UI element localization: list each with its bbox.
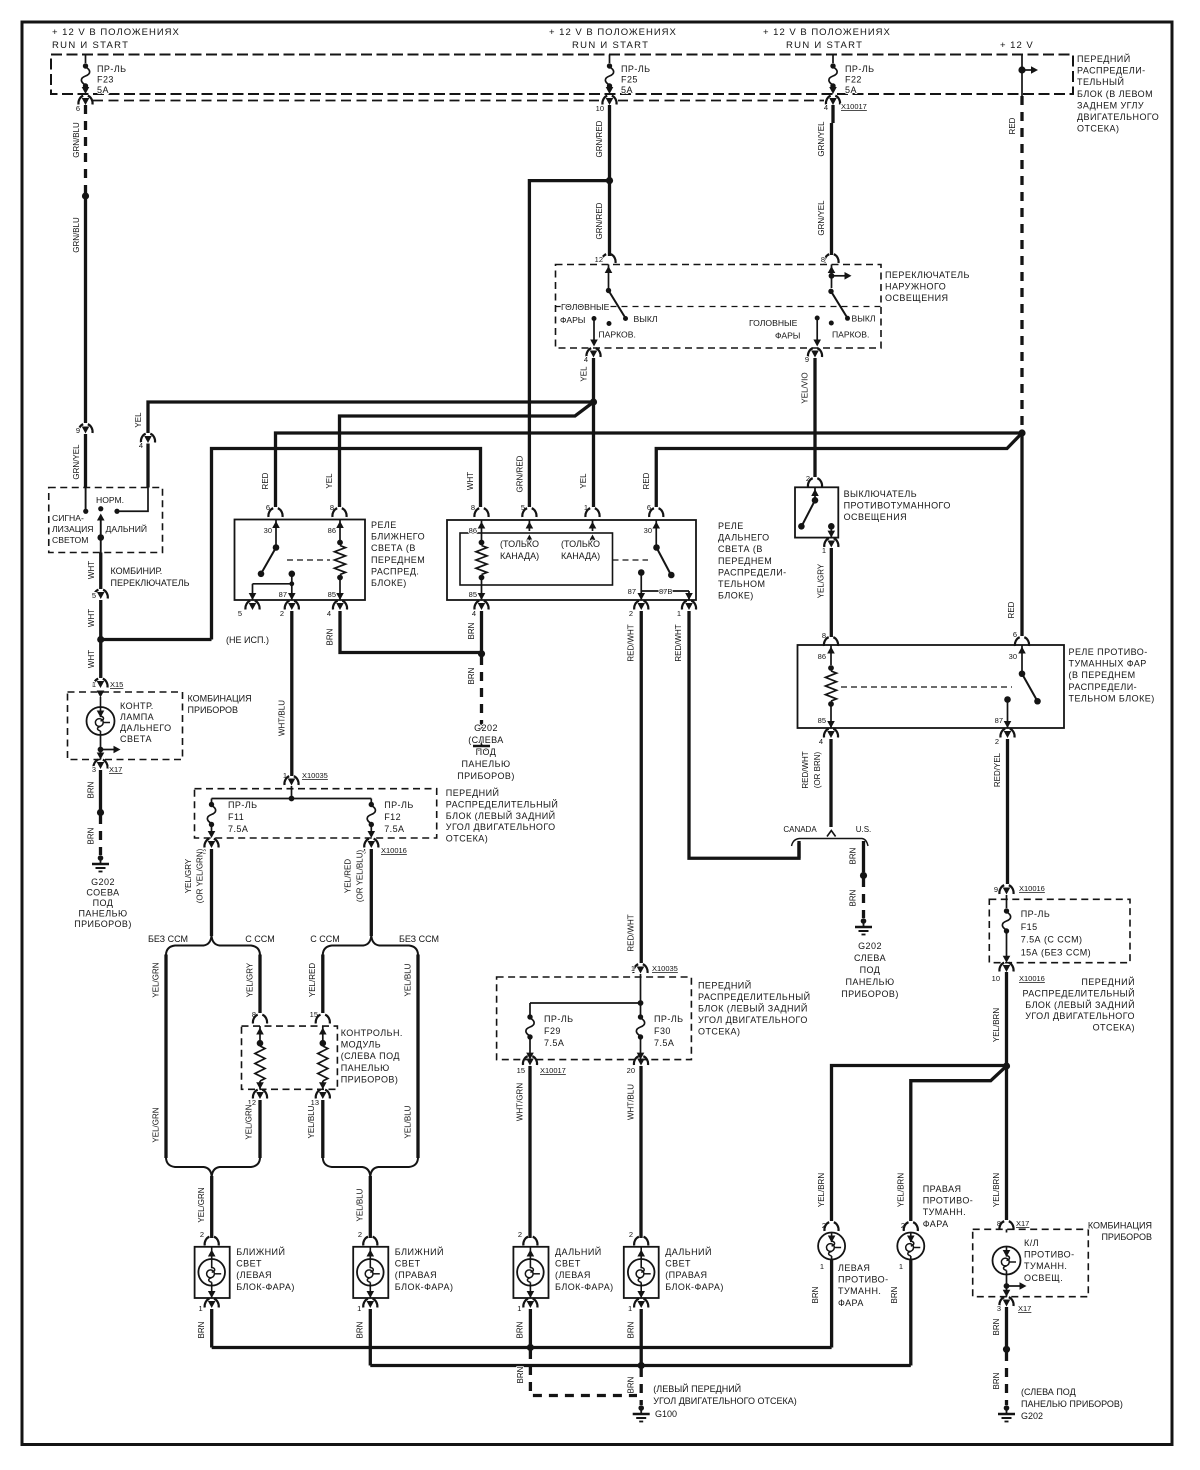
svg-text:ДВИГАТЕЛЬНОГО: ДВИГАТЕЛЬНОГО [1077,112,1159,122]
svg-text:4: 4 [472,609,476,618]
svg-text:15А (БЕЗ ССМ): 15А (БЕЗ ССМ) [1021,947,1091,957]
svg-text:ДАЛЬНИЙ: ДАЛЬНИЙ [106,523,148,534]
svg-text:ПРИБОРОВ): ПРИБОРОВ) [341,1074,399,1084]
svg-text:F15: F15 [1021,922,1038,932]
svg-text:BRN: BRN [890,1286,899,1303]
fuse F30 7.5A [640,1003,642,1015]
svg-text:BRN: BRN [516,1321,525,1338]
svg-text:МОДУЛЬ: МОДУЛЬ [341,1040,381,1050]
svg-text:WHT/BLU: WHT/BLU [278,700,287,736]
svg-text:U.S.: U.S. [856,825,872,834]
fuse box F15 (dashed) [989,899,1130,962]
svg-text:30: 30 [264,526,272,535]
svg-text:BRN: BRN [197,1321,206,1338]
connector switch pin 8 [824,254,838,263]
svg-text:ПР-ЛЬ: ПР-ЛЬ [228,800,258,810]
svg-text:2: 2 [995,737,999,746]
svg-text:WHT: WHT [87,609,96,627]
svg-text:ОТСЕКА): ОТСЕКА) [1093,1023,1135,1033]
connector high-beam relay pin 5 [522,508,536,517]
svg-text:5: 5 [92,591,96,600]
svg-text:ПАНЕЛЬЮ: ПАНЕЛЬЮ [78,909,127,919]
svg-text:ПАНЕЛЬЮ: ПАНЕЛЬЮ [845,977,894,987]
svg-text:RED/YEL: RED/YEL [993,752,1002,787]
svg-text:ОСВЕЩЕНИЯ: ОСВЕЩЕНИЯ [885,293,948,303]
svg-text:WHT/GRN: WHT/GRN [516,1083,525,1121]
wire BRN left low-beam [210,1309,213,1348]
connector fog relay pin 86 connector [824,637,838,646]
svg-text:F23: F23 [97,75,114,85]
svg-text:ПАНЕЛЬЮ: ПАНЕЛЬЮ [341,1063,390,1073]
svg-text:ПОД: ПОД [476,747,497,757]
relay coil [828,665,834,671]
svg-text:YEL/VIO: YEL/VIO [801,372,810,403]
wire YEL/GRY (OR YEL/GRN) [210,849,213,936]
lamp right fog lamp [897,1233,924,1260]
svg-text:86: 86 [818,652,826,661]
svg-text:(СЛЕВА ПОД: (СЛЕВА ПОД [341,1051,400,1061]
svg-text:ВЫКЛЮЧАТЕЛЬ: ВЫКЛЮЧАТЕЛЬ [844,489,917,499]
svg-text:(OR BRN): (OR BRN) [813,751,822,788]
svg-text:7.5А: 7.5А [654,1038,674,1048]
svg-text:BRN: BRN [356,1321,365,1338]
lamp left fog lamp [818,1233,845,1260]
svg-text:ПЕРЕДНИЙ: ПЕРЕДНИЙ [1081,976,1135,987]
wire YEL/GRY (with CCM) [258,955,261,1014]
svg-text:ЛЕВАЯ: ЛЕВАЯ [838,1263,870,1273]
connector X10017 pin 20 [634,1056,648,1065]
svg-text:2: 2 [280,609,284,618]
svg-text:РАСПРЕДЕЛИТЕЛЬНЫЙ: РАСПРЕДЕЛИТЕЛЬНЫЙ [446,798,559,809]
connector low-beam relay pin 5 [245,601,259,610]
svg-text:ТЕЛЬНЫЙ: ТЕЛЬНЫЙ [1077,76,1124,87]
svg-text:1: 1 [631,964,635,973]
wire YEL to low-beam relay pin 86 [340,402,594,507]
svg-text:+ 12 V В ПОЛОЖЕНИЯХ: + 12 V В ПОЛОЖЕНИЯХ [763,27,891,38]
svg-text:ПРОТИВО-: ПРОТИВО- [838,1275,889,1285]
wire BRN left high-beam [529,1309,532,1348]
svg-text:87: 87 [995,716,1003,725]
svg-text:1: 1 [199,1304,203,1313]
wire YEL from switch pin 4 [592,358,595,400]
svg-text:(ТОЛЬКО: (ТОЛЬКО [561,539,600,549]
svg-text:85: 85 [469,590,477,599]
svg-text:87В: 87В [659,587,672,596]
wire RED (dashed) [1020,96,1023,430]
svg-text:ФАРЫ: ФАРЫ [775,331,800,341]
wire YEL/RED (with CCM) [321,955,324,1014]
svg-text:1: 1 [628,1304,632,1313]
connector fog relay pin 4 [824,729,838,738]
svg-text:BRN: BRN [811,1286,820,1303]
svg-text:30: 30 [1009,652,1017,661]
svg-text:F30: F30 [654,1026,671,1036]
svg-text:РЕЛЕ: РЕЛЕ [371,520,397,530]
svg-text:RED/WHT: RED/WHT [801,751,810,788]
svg-text:1: 1 [899,1262,903,1271]
svg-text:G202: G202 [858,941,882,951]
svg-text:СВЕТ: СВЕТ [236,1259,262,1269]
svg-text:ЗАДНЕМ УГЛУ: ЗАДНЕМ УГЛУ [1077,100,1144,110]
svg-text:РАСПРЕДЕЛИ-: РАСПРЕДЕЛИ- [718,567,787,577]
connector row X10017 (dashed line) [93,100,601,102]
wire BRN to G202 [99,770,102,810]
svg-text:GRN/RED: GRN/RED [595,120,604,157]
svg-text:РЕЛЕ: РЕЛЕ [718,521,744,531]
svg-text:1: 1 [677,609,681,618]
svg-text:RED/WHT: RED/WHT [674,624,683,661]
lamp high-beam indicator [100,692,102,695]
svg-text:ТУМАНН.: ТУМАНН. [1024,1261,1067,1271]
ground G202 right [861,918,867,924]
connector fog switch pin 1 [824,538,838,547]
canada submodule box [460,533,613,585]
svg-text:6: 6 [76,104,80,113]
svg-text:ГОЛОВНЫЕ: ГОЛОВНЫЕ [561,302,610,312]
svg-text:YEL/BLU: YEL/BLU [356,1188,365,1221]
svg-text:ПЕРЕДНИЙ: ПЕРЕДНИЙ [1077,53,1131,64]
svg-text:2: 2 [200,1230,204,1239]
svg-text:10: 10 [596,104,604,113]
connector high-beam relay pin 1 [682,601,696,610]
connector X10035 pin 1 left [284,776,298,785]
svg-text:РАСПРЕДЕЛИТЕЛЬНЫЙ: РАСПРЕДЕЛИТЕЛЬНЫЙ [698,991,811,1002]
svg-text:ПРОТИВО-: ПРОТИВО- [923,1196,974,1206]
connector low-beam relay pin 30 connector [268,508,282,517]
svg-text:ВЫКЛ: ВЫКЛ [852,314,876,324]
svg-text:86: 86 [469,526,477,535]
wire YEL/BRN to right fog lamp [911,1066,1007,1221]
wire RED from high-beam relay pin 30 to +12V [656,433,1022,507]
svg-text:BRN: BRN [992,1372,1001,1389]
svg-text:YEL/RED: YEL/RED [308,963,317,997]
svg-text:86: 86 [328,526,336,535]
svg-text:БЛОК (ЛЕВЫЙ ЗАДНИЙ: БЛОК (ЛЕВЫЙ ЗАДНИЙ [1025,999,1135,1010]
svg-text:X10035: X10035 [302,771,328,780]
wire YEL/GRN [258,1100,261,1158]
svg-text:F29: F29 [544,1026,561,1036]
wire GRN/RED [608,105,611,256]
svg-text:ФАРА: ФАРА [923,1219,949,1229]
ground G100 [638,1405,644,1411]
wire canada branch [797,841,800,858]
svg-text:RED: RED [261,472,270,489]
svg-text:GRN/RED: GRN/RED [516,455,525,492]
svg-text:YEL/BRN: YEL/BRN [992,1173,1001,1207]
svg-text:RED: RED [642,472,651,489]
svg-text:ПЕРЕДНИЙ: ПЕРЕДНИЙ [698,980,752,991]
svg-text:5А: 5А [97,85,109,95]
svg-text:ПЕРЕДНЕМ: ПЕРЕДНЕМ [371,555,425,565]
ground G202 [479,737,485,743]
svg-text:6: 6 [1013,630,1017,639]
svg-text:С ССМ: С ССМ [245,934,274,944]
svg-text:8: 8 [821,255,825,264]
svg-text:ПЕРЕДНЕМ: ПЕРЕДНЕМ [718,556,772,566]
svg-text:ЛИЗАЦИЯ: ЛИЗАЦИЯ [52,524,93,534]
wire BRN ground bus A [212,1346,832,1349]
connector CCM pin 8 [253,1015,267,1024]
svg-text:X10016: X10016 [1019,974,1045,983]
wire BRN right fog lamp [909,1260,912,1366]
svg-text:БЛИЖНИЙ: БЛИЖНИЙ [395,1246,444,1257]
svg-text:12: 12 [595,255,603,264]
svg-text:ОСВЕЩ.: ОСВЕЩ. [1024,1273,1063,1283]
svg-text:YEL: YEL [134,412,143,428]
svg-text:УГОЛ ДВИГАТЕЛЬНОГО: УГОЛ ДВИГАТЕЛЬНОГО [1025,1011,1135,1021]
svg-text:(ТОЛЬКО: (ТОЛЬКО [500,539,539,549]
svg-text:YEL/RED: YEL/RED [344,859,353,893]
connector low-beam relay pin 4 [333,601,347,610]
relay coil [479,540,485,546]
svg-text:ДАЛЬНИЙ: ДАЛЬНИЙ [555,1246,602,1257]
connector switch pin 9 [808,348,822,357]
relay low-beam (РЕЛЕ БЛИЖНЕГО СВЕТА) [235,520,366,601]
svg-text:YEL/BLU: YEL/BLU [404,1105,413,1138]
svg-text:ПАРКОВ.: ПАРКОВ. [832,330,869,340]
wire YEL to high-beam relay pin 1 [592,402,595,507]
svg-text:(ПРАВАЯ: (ПРАВАЯ [665,1270,707,1280]
connector switch pin 4 [586,348,600,357]
svg-text:7.5А: 7.5А [544,1038,564,1048]
svg-text:RED/WHT: RED/WHT [627,624,636,661]
connector X10016 pin 10 [999,963,1013,972]
svg-text:РАСПРЕДЕЛИ-: РАСПРЕДЕЛИ- [1069,682,1138,692]
wire GRN/BLU (dashed) [84,105,87,193]
wire BRN left fog lamp [830,1260,833,1348]
svg-text:НОРМ.: НОРМ. [96,495,124,505]
connector inline pin 9 [78,424,92,433]
svg-text:СИГНА-: СИГНА- [52,513,84,523]
svg-text:КОМБИНИР.: КОМБИНИР. [111,566,163,576]
svg-text:КОНТРОЛЬН.: КОНТРОЛЬН. [341,1028,403,1038]
svg-text:ПЕРЕКЛЮЧАТЕЛЬ: ПЕРЕКЛЮЧАТЕЛЬ [111,578,190,588]
connector CCM pin 12 [253,1090,267,1099]
svg-text:8: 8 [471,503,475,512]
svg-text:RUN И START: RUN И START [572,40,649,51]
fuse F25 5A [609,55,611,64]
svg-text:1: 1 [92,680,96,689]
wire YEL/GRN (without CCM) [164,955,167,1159]
svg-text:X15: X15 [110,680,123,689]
svg-text:X17: X17 [109,765,122,774]
switch left half (low beams feed) [608,265,610,289]
svg-text:YEL/BRN: YEL/BRN [896,1173,905,1207]
node junction YEL [590,398,597,405]
svg-text:1: 1 [822,546,826,555]
svg-text:СЛЕВА: СЛЕВА [854,953,886,963]
svg-text:15: 15 [517,1066,525,1075]
svg-text:БЛОК-ФАРА): БЛОК-ФАРА) [665,1282,724,1292]
connector X10017 pin 6 [78,96,92,105]
wire BRN right low-beam [369,1309,372,1366]
svg-text:BRN: BRN [849,889,858,906]
connector low-beam relay pin 2 [285,601,299,610]
svg-text:ГОЛОВНЫЕ: ГОЛОВНЫЕ [749,318,798,328]
connector X10016 pin 4 [364,839,378,848]
connector CCM pin 13 [316,1090,330,1099]
svg-text:5А: 5А [621,85,633,95]
wire WHT from dimmer switch [100,538,102,553]
svg-text:YEL/GRY: YEL/GRY [246,962,255,997]
svg-text:3: 3 [92,765,96,774]
svg-text:2: 2 [518,1230,522,1239]
fuse F15 [1004,908,1009,913]
check control module box (dashed) [242,1026,338,1089]
svg-text:ТЕЛЬНОМ БЛОКЕ): ТЕЛЬНОМ БЛОКЕ) [1069,693,1155,703]
svg-text:КОМБИНАЦИЯ: КОМБИНАЦИЯ [1088,1221,1152,1231]
wire BRN [1005,1307,1008,1346]
svg-text:YEL/GRN: YEL/GRN [152,962,161,997]
svg-text:(ЛЕВАЯ: (ЛЕВАЯ [236,1270,272,1280]
wire BRN US branch [862,841,865,872]
svg-text:ПР-ЛЬ: ПР-ЛЬ [97,64,127,74]
svg-text:БЛОКЕ): БЛОКЕ) [371,578,407,588]
fuse F11 7.5A [211,799,213,803]
svg-text:УГОЛ ДВИГАТЕЛЬНОГО: УГОЛ ДВИГАТЕЛЬНОГО [698,1015,808,1025]
svg-text:10: 10 [992,974,1000,983]
node junction GRN/RED tap [606,177,613,184]
svg-text:ДАЛЬНЕГО: ДАЛЬНЕГО [718,533,770,543]
wire RED bus to fog relay [276,433,1023,507]
svg-text:БЛИЖНИЙ: БЛИЖНИЙ [236,1246,285,1257]
svg-text:RED/WHT: RED/WHT [627,914,636,951]
svg-text:X10017: X10017 [540,1066,566,1075]
wire GRN/YEL [84,434,87,488]
svg-text:ПРОТИВОТУМАННОГО: ПРОТИВОТУМАННОГО [844,501,951,511]
svg-text:1: 1 [357,1304,361,1313]
connector high-beam relay pin 4 [474,601,488,610]
wire WHT to high-beam relay net [101,638,212,641]
wire +12V feed with arrow tap [1021,55,1023,97]
svg-text:YEL/GRN: YEL/GRN [152,1107,161,1142]
lamp left high-beam [513,1247,548,1298]
svg-text:9: 9 [805,355,809,364]
resistor CCM left [259,1026,261,1041]
connector X10016 pin 9 [999,885,1013,894]
connector right low-beam pin 2 [363,1237,377,1246]
svg-text:GRN/YEL: GRN/YEL [817,200,826,236]
wire YEL/RED (OR YEL/BLU) [370,849,373,936]
svg-text:7.5А: 7.5А [228,824,248,834]
svg-text:ПРАВАЯ: ПРАВАЯ [923,1184,962,1194]
svg-text:ОТСЕКА): ОТСЕКА) [1077,124,1119,134]
wire YEL/BLU (without CCM) [416,955,419,1159]
wire BRN ground bus B [370,1364,911,1367]
svg-text:87: 87 [279,590,287,599]
svg-text:(ЛЕВЫЙ ПЕРЕДНИЙ: (ЛЕВЫЙ ПЕРЕДНИЙ [653,1383,741,1394]
connector left low-beam pin 2 [205,1237,219,1246]
svg-text:20: 20 [627,1066,635,1075]
svg-text:СВЕТ: СВЕТ [395,1259,421,1269]
svg-text:ЛАМПА: ЛАМПА [120,712,154,722]
wire BRN right high-beam [640,1309,643,1366]
svg-text:БЕЗ ССМ: БЕЗ ССМ [148,934,188,944]
switch contacts [85,488,87,511]
svg-text:ПР-ЛЬ: ПР-ЛЬ [654,1014,684,1024]
svg-text:YEL/BLU: YEL/BLU [307,1105,316,1138]
svg-text:2: 2 [358,1230,362,1239]
svg-text:1: 1 [517,1304,521,1313]
svg-text:ОСВЕЩЕНИЯ: ОСВЕЩЕНИЯ [844,512,907,522]
svg-text:БЕЗ ССМ: БЕЗ ССМ [399,934,439,944]
wire RED/WHT pin 87B canada loop [689,611,799,858]
svg-text:ПРОТИВО-: ПРОТИВО- [1024,1250,1075,1260]
svg-text:ПРИБОРОВ): ПРИБОРОВ) [841,989,899,999]
svg-text:(В ПЕРЕДНЕМ: (В ПЕРЕДНЕМ [1069,670,1136,680]
svg-text:РАСПРЕД.: РАСПРЕД. [371,566,419,576]
svg-text:ТУМАННЫХ ФАР: ТУМАННЫХ ФАР [1069,659,1147,669]
svg-text:7.5А (С ССМ): 7.5А (С ССМ) [1021,935,1083,945]
lamp right high-beam [624,1247,659,1298]
svg-text:ПАНЕЛЬЮ ПРИБОРОВ): ПАНЕЛЬЮ ПРИБОРОВ) [1021,1399,1123,1409]
svg-text:ФАРЫ: ФАРЫ [560,315,585,325]
svg-text:ПЕРЕКЛЮЧАТЕЛЬ: ПЕРЕКЛЮЧАТЕЛЬ [885,270,970,280]
svg-text:ТУМАНН.: ТУМАНН. [838,1286,881,1296]
svg-text:(OR YEL/BLU): (OR YEL/BLU) [356,850,365,903]
svg-text:GRN/RED: GRN/RED [595,202,604,239]
svg-text:КАНАДА): КАНАДА) [561,551,600,561]
svg-text:87: 87 [628,587,636,596]
connector inline pin 4 [141,434,155,443]
wire BRN (dashed) [1005,1352,1008,1405]
connector X10017 pin 10 [602,96,616,105]
node junction bus A [527,1344,534,1351]
svg-text:БЛОКЕ): БЛОКЕ) [718,591,754,601]
svg-text:BRN: BRN [326,628,335,645]
svg-text:F11: F11 [228,812,244,822]
connector X17 pin 8 [999,1221,1013,1230]
node option merge left [166,1158,260,1177]
switch blade [100,516,102,538]
svg-text:ВЫКЛ: ВЫКЛ [634,314,658,324]
svg-text:4: 4 [327,609,331,618]
connector fog relay pin 30 connector [1015,637,1029,646]
connector high-beam relay pin 1 connector [585,508,599,517]
svg-text:ТУМАНН.: ТУМАНН. [923,1207,966,1217]
svg-text:+ 12 V В ПОЛОЖЕНИЯХ: + 12 V В ПОЛОЖЕНИЯХ [52,27,180,38]
svg-text:БЛОК-ФАРА): БЛОК-ФАРА) [236,1282,295,1292]
svg-text:(СЛЕВА: (СЛЕВА [468,735,504,745]
fuse F23 5A [85,55,87,64]
svg-text:YEL/GRY: YEL/GRY [184,858,193,893]
svg-text:YEL: YEL [580,366,589,382]
connector left fog lamp pin 2 [824,1222,838,1231]
wire RED/WHT [640,611,643,963]
svg-text:RUN И START: RUN И START [786,40,863,51]
svg-text:85: 85 [328,590,336,599]
svg-text:YEL/GRY: YEL/GRY [817,563,826,598]
relay coil [337,540,343,546]
connector X17 pin 3 [999,1297,1013,1306]
svg-text:YEL/BRN: YEL/BRN [992,1008,1001,1042]
svg-text:30: 30 [644,526,652,535]
fuse box F11/F12 (dashed) [195,789,437,838]
svg-text:RUN И START: RUN И START [52,40,129,51]
svg-text:УГОЛ ДВИГАТЕЛЬНОГО ОТСЕКА): УГОЛ ДВИГАТЕЛЬНОГО ОТСЕКА) [653,1396,796,1406]
svg-text:1: 1 [820,1262,824,1271]
connector X15 pin 1 [93,679,107,688]
wire BRN (dashed) [480,656,483,737]
wire WHT/BLU [290,611,293,776]
connector X10016 pin 2 [204,839,218,848]
svg-text:НАРУЖНОГО: НАРУЖНОГО [885,282,946,292]
connector CCM pin 15 [316,1015,330,1024]
svg-text:СВЕТА: СВЕТА [120,734,152,744]
svg-text:С ССМ: С ССМ [310,934,339,944]
connector fog switch pin 2 [808,478,822,487]
svg-text:F12: F12 [384,812,401,822]
